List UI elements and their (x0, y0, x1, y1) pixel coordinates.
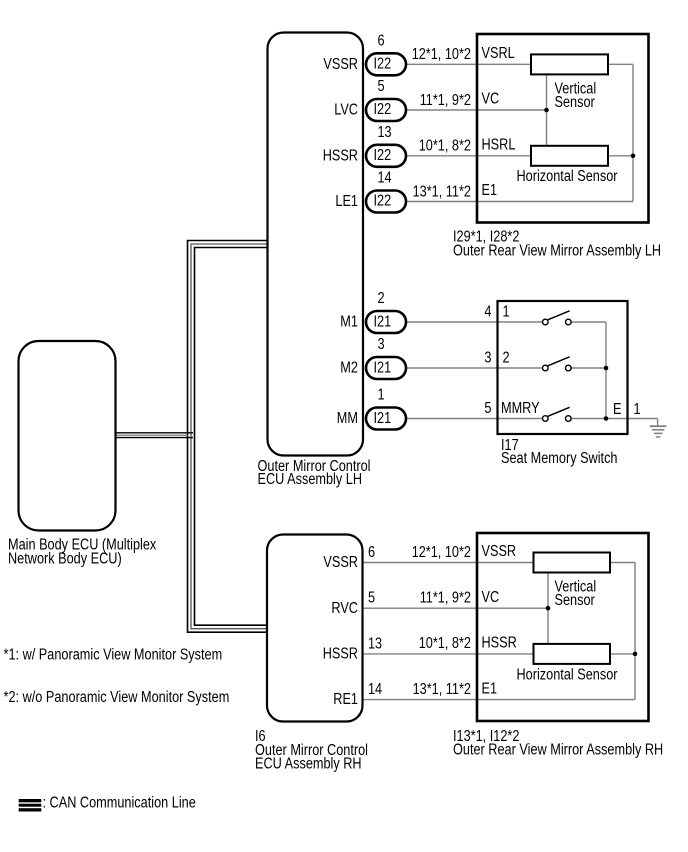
svg-text:Horizontal Sensor: Horizontal Sensor (517, 666, 618, 683)
svg-text:11*1, 9*2: 11*1, 9*2 (420, 590, 471, 607)
svg-text:13*1, 11*2: 13*1, 11*2 (413, 681, 471, 698)
svg-text:HSSR: HSSR (323, 147, 358, 164)
svg-text:12*1, 10*2: 12*1, 10*2 (412, 46, 471, 63)
svg-text:5: 5 (484, 400, 491, 417)
svg-text:RVC: RVC (331, 600, 358, 617)
svg-text:VSSR: VSSR (323, 56, 358, 73)
svg-text:VC: VC (482, 91, 500, 108)
svg-text:I22: I22 (374, 101, 392, 118)
svg-text:6: 6 (378, 32, 385, 49)
svg-text:13: 13 (368, 635, 382, 652)
svg-text:MM: MM (337, 410, 358, 427)
svg-text:E1: E1 (482, 680, 498, 697)
svg-text:Horizontal Sensor: Horizontal Sensor (517, 168, 618, 185)
svg-text:M1: M1 (340, 314, 358, 331)
svg-text:I21: I21 (374, 410, 392, 427)
svg-text:: CAN Communication Line: : CAN Communication Line (43, 794, 196, 811)
svg-text:6: 6 (368, 544, 375, 561)
svg-text:I21: I21 (374, 314, 392, 331)
svg-text:11*1, 9*2: 11*1, 9*2 (420, 92, 471, 109)
svg-text:10*1, 8*2: 10*1, 8*2 (419, 635, 471, 652)
svg-text:2: 2 (378, 290, 385, 307)
svg-text:4: 4 (484, 304, 491, 321)
svg-text:RE1: RE1 (333, 691, 358, 708)
svg-text:ECU Assembly LH: ECU Assembly LH (258, 471, 363, 488)
svg-text:Seat Memory Switch: Seat Memory Switch (501, 450, 618, 467)
svg-text:Outer Rear View Mirror Assembl: Outer Rear View Mirror Assembly RH (453, 742, 663, 759)
svg-text:1: 1 (378, 387, 385, 404)
svg-text:HSSR: HSSR (323, 646, 358, 663)
svg-text:12*1, 10*2: 12*1, 10*2 (412, 544, 471, 561)
svg-text:5: 5 (368, 590, 375, 607)
svg-text:LE1: LE1 (335, 193, 358, 210)
svg-text:14: 14 (368, 681, 382, 698)
svg-text:HSRL: HSRL (482, 137, 516, 154)
svg-text:I21: I21 (374, 360, 392, 377)
svg-text:2: 2 (503, 350, 510, 367)
svg-text:13*1, 11*2: 13*1, 11*2 (413, 183, 471, 200)
svg-text:VSRL: VSRL (482, 45, 516, 62)
svg-text:10*1, 8*2: 10*1, 8*2 (419, 138, 471, 155)
svg-text:VSSR: VSSR (323, 554, 358, 571)
svg-text:I22: I22 (374, 193, 392, 210)
svg-text:5: 5 (378, 78, 385, 95)
svg-text:3: 3 (484, 350, 491, 367)
svg-text:ECU Assembly RH: ECU Assembly RH (255, 756, 362, 773)
svg-text:M2: M2 (340, 360, 358, 377)
svg-text:VSSR: VSSR (482, 543, 517, 560)
svg-text:3: 3 (378, 336, 385, 353)
svg-text:Sensor: Sensor (555, 94, 595, 111)
svg-text:E1: E1 (482, 182, 498, 199)
svg-text:VC: VC (482, 589, 500, 606)
svg-text:I22: I22 (374, 147, 392, 164)
svg-text:E: E (613, 401, 622, 418)
svg-text:1: 1 (634, 401, 641, 418)
svg-text:*2: w/o Panoramic View Monitor: *2: w/o Panoramic View Monitor System (4, 689, 230, 706)
svg-text:I22: I22 (374, 56, 392, 73)
svg-text:Outer Rear View Mirror Assembl: Outer Rear View Mirror Assembly LH (453, 242, 661, 259)
svg-text:HSSR: HSSR (482, 635, 517, 652)
svg-text:14: 14 (378, 170, 392, 187)
svg-text:Sensor: Sensor (555, 592, 595, 609)
svg-text:MMRY: MMRY (501, 400, 540, 417)
svg-text:LVC: LVC (334, 102, 358, 119)
svg-text:*1: w/ Panoramic View Monitor: *1: w/ Panoramic View Monitor System (4, 647, 223, 664)
svg-text:13: 13 (378, 124, 392, 141)
svg-text:1: 1 (503, 304, 510, 321)
svg-text:Network Body ECU): Network Body ECU) (8, 551, 122, 568)
